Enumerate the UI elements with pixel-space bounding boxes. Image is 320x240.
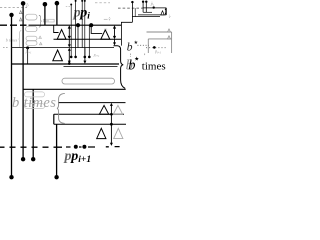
mini1 right corner [165, 8, 167, 15]
mini1 delta [161, 11, 164, 15]
ghost stadium bottom 1 [25, 92, 45, 97]
hanging wire h1 [70, 4, 72, 6]
mini2 line 1 [147, 31, 172, 33]
wire from A dot down to H1 [77, 25, 79, 47]
mini2 delta 2 [168, 36, 171, 39]
mini2 line 2 [148, 38, 171, 40]
wire w4 step vertical [53, 114, 55, 124]
ghost delta partner of U5 [114, 128, 123, 138]
ghost stadium bottom 2 [25, 104, 45, 109]
arrow A-B left [68, 27, 70, 38]
line G1 [54, 113, 124, 115]
mini1 bus line a [143, 7, 167, 9]
line F1 [58, 102, 126, 104]
delta gate U4 [99, 105, 108, 114]
wire w6 [56, 3, 58, 25]
H1 grey stub [3, 47, 9, 49]
line D2 [64, 66, 118, 68]
mini1 wire a [131, 2, 133, 22]
line H1 [12, 47, 115, 49]
delta gate U5 [97, 128, 106, 138]
svg-text:p: p [64, 149, 72, 164]
ghost dash above b 1 [130, 54, 132, 58]
mini1 line y12.3 [143, 11, 152, 13]
ghost delta partner of U4 [113, 105, 122, 114]
wire L into U1 [54, 25, 59, 32]
mini2 delta 1 [168, 29, 171, 32]
mini1 dashed line [118, 7, 143, 9]
ghost dash left of h1 [66, 5, 70, 7]
ghost dashed top mid [95, 2, 110, 4]
ghost delta on box3 [39, 36, 42, 38]
hanging wire h2 [75, 0, 77, 2]
ghost tag box with text [44, 19, 55, 22]
arrow down to C at x=84.9 [84, 48, 86, 63]
mini1 wire c [145, 2, 147, 13]
mini1 dot b [142, 1, 144, 3]
junction dot on G1 [110, 113, 113, 116]
line G2 [54, 123, 126, 125]
ghost delta g2 [19, 18, 22, 21]
input dot D1 [21, 1, 26, 6]
wire w3 vertical [32, 89, 34, 159]
wire from H1 dot to C [27, 48, 29, 64]
svg-text:b: b [127, 41, 133, 53]
mini2 right corner down [171, 32, 173, 53]
mini2 black dot [153, 46, 156, 49]
ghost stadium wide mid [62, 78, 115, 84]
junction dot on A [76, 23, 80, 27]
terminal dot D5 [9, 175, 13, 179]
ghost delta on box4 [39, 42, 42, 44]
mini1 wire b [142, 2, 144, 13]
input dot D4 [9, 13, 13, 17]
mini1 bus line b [138, 14, 166, 16]
arrow B-H1 [68, 39, 70, 46]
bus line A solid [29, 24, 122, 26]
bus line A dashed part [0, 24, 27, 26]
svg-text:times: times [142, 60, 166, 72]
bottom dashed line [0, 146, 120, 149]
svg-text:b times: b times [12, 95, 56, 111]
dot on dashed line 2 [82, 145, 86, 149]
bus line B [54, 38, 122, 40]
svg-text:v̂: v̂ [169, 14, 171, 19]
delta gate U2 right [101, 30, 110, 40]
ghost stadium box 1 [26, 14, 37, 20]
mini2 left corner down [147, 39, 149, 53]
ghost stub left of v [104, 18, 108, 20]
mini2 dotted row [146, 47, 166, 49]
dotted leader [138, 44, 150, 46]
terminal dot D6 [54, 175, 58, 179]
hanging wire h3 [81, 0, 83, 2]
ghost dash above b 2 [144, 54, 146, 57]
arrow B to brace arm [114, 39, 116, 44]
line C [12, 63, 120, 65]
arrow A-B right [114, 27, 116, 38]
mini1 stub [134, 8, 136, 17]
ghost stadium box 3 [26, 36, 37, 40]
mini1 dot on bus [153, 6, 155, 8]
junction dot on G2 [110, 123, 113, 126]
arrow chain F1 to dashed [110, 104, 112, 144]
svg-text:v̂: v̂ [108, 16, 110, 21]
ghost stadium box 4 [26, 41, 37, 45]
wire w5 [44, 4, 46, 25]
hanging wire h5 [88, 25, 90, 57]
dot on dashed line 1 [74, 145, 78, 149]
delta gate U1 [57, 30, 66, 40]
mini1 dot a [131, 1, 133, 3]
ghost stadium box 2 [26, 26, 37, 31]
junction dot on A second [89, 23, 93, 27]
delta gate U3 [53, 50, 63, 61]
grey dashed guide line top-left [0, 7, 27, 9]
svg-text:★: ★ [134, 56, 139, 63]
junction dot on H1 [26, 46, 29, 49]
mini1 arrow [165, 9, 167, 15]
arrow H1-C double [68, 49, 70, 62]
mini1 lower line [132, 16, 160, 18]
mini1 dot c [145, 1, 147, 3]
ghost brace left of boxes [19, 31, 22, 49]
ghost stub under A [104, 28, 107, 30]
wire w4 vertical [56, 124, 58, 177]
junction blob at C [68, 62, 71, 65]
hanging wire h4 [84, 0, 86, 2]
wire w1 vertical [11, 15, 13, 177]
mini1 corner to left [121, 22, 132, 45]
input dot D3 [55, 1, 60, 6]
wire L into U2 [91, 25, 102, 33]
grey brace mid-left [57, 93, 65, 123]
input dot D2 [43, 2, 48, 7]
ghost brace small [39, 15, 42, 27]
ghost delta g1 [19, 11, 22, 14]
big black brace right [114, 46, 126, 89]
wire w2 vertical [22, 3, 24, 159]
terminal dot D8 [31, 157, 35, 161]
line E1 [23, 88, 126, 90]
terminal dot D7 [21, 157, 25, 161]
